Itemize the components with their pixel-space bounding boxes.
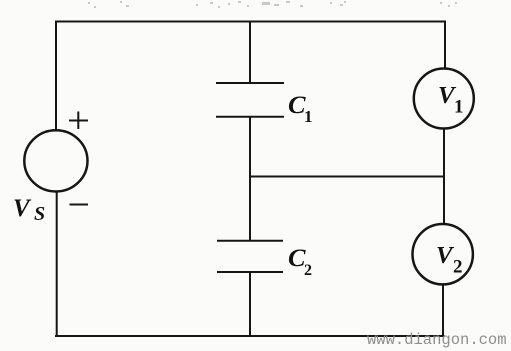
svg-text:1: 1 [304,107,313,126]
svg-text:1: 1 [454,97,464,118]
svg-text:2: 2 [453,257,463,278]
svg-text:www.diangon.com: www.diangon.com [367,331,507,349]
svg-text:V: V [13,195,32,222]
svg-text:S: S [34,203,45,225]
svg-text:V: V [436,243,455,269]
svg-text:2: 2 [304,262,312,279]
